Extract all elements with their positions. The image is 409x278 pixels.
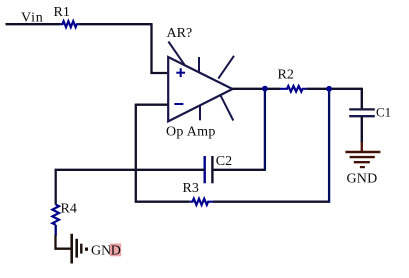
svg-text:R4: R4: [61, 202, 77, 217]
resistor R3: [190, 199, 213, 205]
label GND earth: [347, 171, 378, 186]
wire C2 to R4 corner: [56, 170, 205, 205]
ground GND bar symbol bottom-left: [56, 234, 89, 264]
wire inverting input down to R3 line: [136, 104, 190, 202]
node Vin label: [21, 11, 44, 26]
capacitor C1: [349, 109, 375, 116]
wire R1 to corner: [79, 23, 152, 25]
label C2: [216, 154, 232, 169]
label R1: [54, 5, 70, 20]
junction dot output node: [262, 86, 268, 92]
op-amp pin V+ vertical: [198, 57, 200, 73]
ground GND earth symbol: [345, 142, 380, 167]
op-amp pin stub upper-right: [218, 56, 234, 79]
resistor R4: [52, 205, 59, 225]
svg-text:C2: C2: [216, 154, 232, 169]
wire corner down to noninverting input: [152, 23, 169, 73]
op-amp minus input marking: [174, 103, 183, 105]
capacitor C2: [205, 156, 213, 183]
label AR?: [167, 26, 193, 41]
op-amp pin V- vertical: [199, 106, 201, 121]
wire output node down to C2 line: [212, 89, 265, 171]
op-amp pin stub upper-left offset: [168, 42, 184, 65]
op-amp pin stub lower-right: [220, 95, 233, 121]
wire R4 to ground: [55, 225, 57, 236]
svg-text:Op Amp: Op Amp: [166, 125, 216, 140]
junction dot R2-C1 node: [326, 86, 332, 92]
resistor R2: [280, 86, 307, 92]
wire output to R2: [233, 88, 281, 90]
svg-text:D: D: [111, 244, 121, 259]
op-amp AR? triangle: [168, 57, 232, 121]
op-amp plus input marking: [176, 68, 185, 77]
resistor R1: [60, 21, 78, 27]
svg-text:R1: R1: [54, 5, 70, 20]
wire C1 to ground: [361, 116, 363, 143]
label GND bottom-left with highlighted D: [91, 244, 121, 259]
label R4: [61, 202, 77, 217]
wire C1 branch down: [361, 88, 363, 110]
svg-text:GN: GN: [91, 244, 111, 259]
wire R2 to C1 corner: [307, 88, 362, 90]
label C1: [376, 105, 391, 120]
wire Vin input horizontal: [6, 23, 61, 25]
wire inverting input stub: [136, 104, 168, 106]
label Op Amp: [166, 125, 216, 140]
svg-text:R2: R2: [278, 68, 294, 83]
svg-text:AR?: AR?: [167, 26, 193, 41]
label R2: [278, 68, 294, 83]
wire R3 to R2-C1 node: [213, 89, 329, 203]
svg-text:Vin: Vin: [21, 11, 44, 26]
svg-text:R3: R3: [183, 181, 199, 196]
svg-text:GND: GND: [347, 171, 378, 186]
label R3: [183, 181, 199, 196]
svg-text:C1: C1: [376, 105, 391, 120]
